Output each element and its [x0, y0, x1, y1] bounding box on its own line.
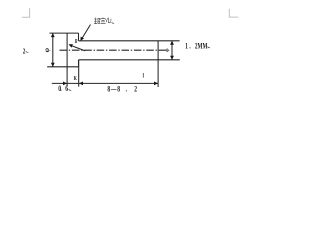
svg-text:K: K: [74, 75, 77, 82]
right dim arrow up: [170, 41, 174, 45]
1.2MM break mark: [207, 47, 210, 48]
corner mark top-right: [229, 9, 238, 17]
bottom dimension line (K + length, continuous): [52, 82, 158, 84]
shank top edge + extension to right dim: [79, 40, 180, 42]
length dim extension right: [157, 60, 159, 87]
0.6 break mark: [69, 89, 72, 90]
callout text (CJK simulated): [94, 18, 111, 24]
shank end face: [157, 41, 159, 60]
svg-text:φ: φ: [165, 48, 171, 52]
text 2 with line-break mark: [23, 48, 26, 56]
R label: [75, 40, 78, 46]
step head-to-shank bottom + shared extension down: [78, 60, 80, 87]
corner mark top-left: [22, 8, 30, 17]
head left edge (continues down as K extension): [66, 33, 68, 86]
callout leader: [81, 25, 90, 40]
R leader: [72, 46, 85, 51]
head top edge + extension line: [50, 32, 79, 34]
head bottom edge + extension line: [47, 66, 79, 68]
phi dim arrow up: [51, 33, 55, 37]
label 1.2MM: [185, 42, 208, 50]
R leader arrowhead: [69, 44, 73, 48]
label 8-8.2: [107, 86, 137, 94]
centerline dash-dot: [60, 49, 169, 51]
right dia dimension line: [171, 41, 173, 60]
right dim arrow down: [170, 56, 174, 60]
phi dimension line left: [52, 33, 54, 67]
svg-text:2: 2: [23, 48, 26, 56]
callout break mark: [112, 22, 115, 23]
shank bottom edge + extension to right dim: [79, 59, 180, 61]
K dim left arrowhead: [63, 82, 67, 86]
svg-text:φ: φ: [43, 47, 51, 52]
length dim right arrowhead: [154, 82, 158, 86]
K label: [74, 75, 77, 82]
length dim left arrowhead: [79, 82, 83, 86]
l tick label: [143, 73, 145, 80]
label 0.6: [58, 85, 68, 93]
page background: [0, 0, 250, 152]
callout leader arrowhead: [80, 37, 84, 41]
step head-to-shank top: [78, 33, 80, 41]
phi dim arrow down: [51, 63, 55, 67]
